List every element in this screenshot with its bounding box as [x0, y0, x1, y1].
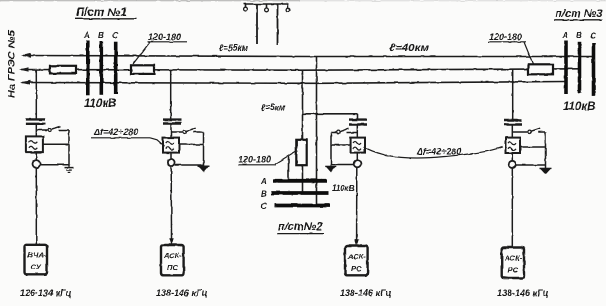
- svg-text:В: В: [98, 31, 104, 40]
- svg-text:Δf=42÷280: Δf=42÷280: [416, 147, 461, 157]
- svg-text:АСК-: АСК-: [504, 254, 523, 263]
- svg-text:П/ст №1: П/ст №1: [76, 7, 127, 19]
- svg-text:В: В: [261, 190, 267, 199]
- svg-text:ПС: ПС: [167, 263, 178, 272]
- svg-text:ℓ=40км: ℓ=40км: [389, 43, 430, 54]
- svg-text:110кВ: 110кВ: [332, 184, 355, 193]
- svg-text:138-146 кГц: 138-146 кГц: [156, 288, 208, 298]
- svg-text:110кВ: 110кВ: [84, 98, 116, 110]
- svg-text:РС: РС: [508, 266, 519, 275]
- svg-text:На ГРЭС №5: На ГРЭС №5: [7, 29, 18, 98]
- svg-text:В: В: [576, 31, 582, 40]
- svg-text:120-180: 120-180: [489, 32, 522, 42]
- svg-text:С: С: [113, 31, 119, 40]
- svg-text:110кВ: 110кВ: [563, 101, 595, 113]
- svg-text:138-146 кГц: 138-146 кГц: [340, 288, 392, 298]
- svg-text:А: А: [260, 177, 267, 186]
- svg-text:ℓ=5км: ℓ=5км: [261, 103, 285, 113]
- svg-text:СУ: СУ: [31, 263, 42, 272]
- svg-text:120-180: 120-180: [238, 155, 271, 165]
- svg-text:АСК-: АСК-: [163, 251, 182, 260]
- svg-text:С: С: [261, 202, 267, 211]
- svg-text:126-134 кГц: 126-134 кГц: [20, 288, 72, 298]
- svg-text:п/ст№2: п/ст№2: [278, 221, 322, 233]
- svg-text:АСК-: АСК-: [347, 252, 366, 261]
- svg-text:С: С: [591, 32, 597, 41]
- svg-text:138-146 кГц: 138-146 кГц: [497, 288, 549, 298]
- svg-text:Δf=42÷280: Δf=42÷280: [93, 127, 138, 137]
- svg-text:п/ст №3: п/ст №3: [555, 8, 602, 20]
- svg-text:120-180: 120-180: [148, 32, 181, 42]
- svg-text:А: А: [83, 31, 90, 40]
- svg-text:ВЧА-: ВЧА-: [28, 251, 47, 260]
- svg-text:РС: РС: [351, 264, 362, 273]
- svg-text:ℓ=55км: ℓ=55км: [219, 43, 248, 54]
- svg-text:А: А: [562, 31, 569, 40]
